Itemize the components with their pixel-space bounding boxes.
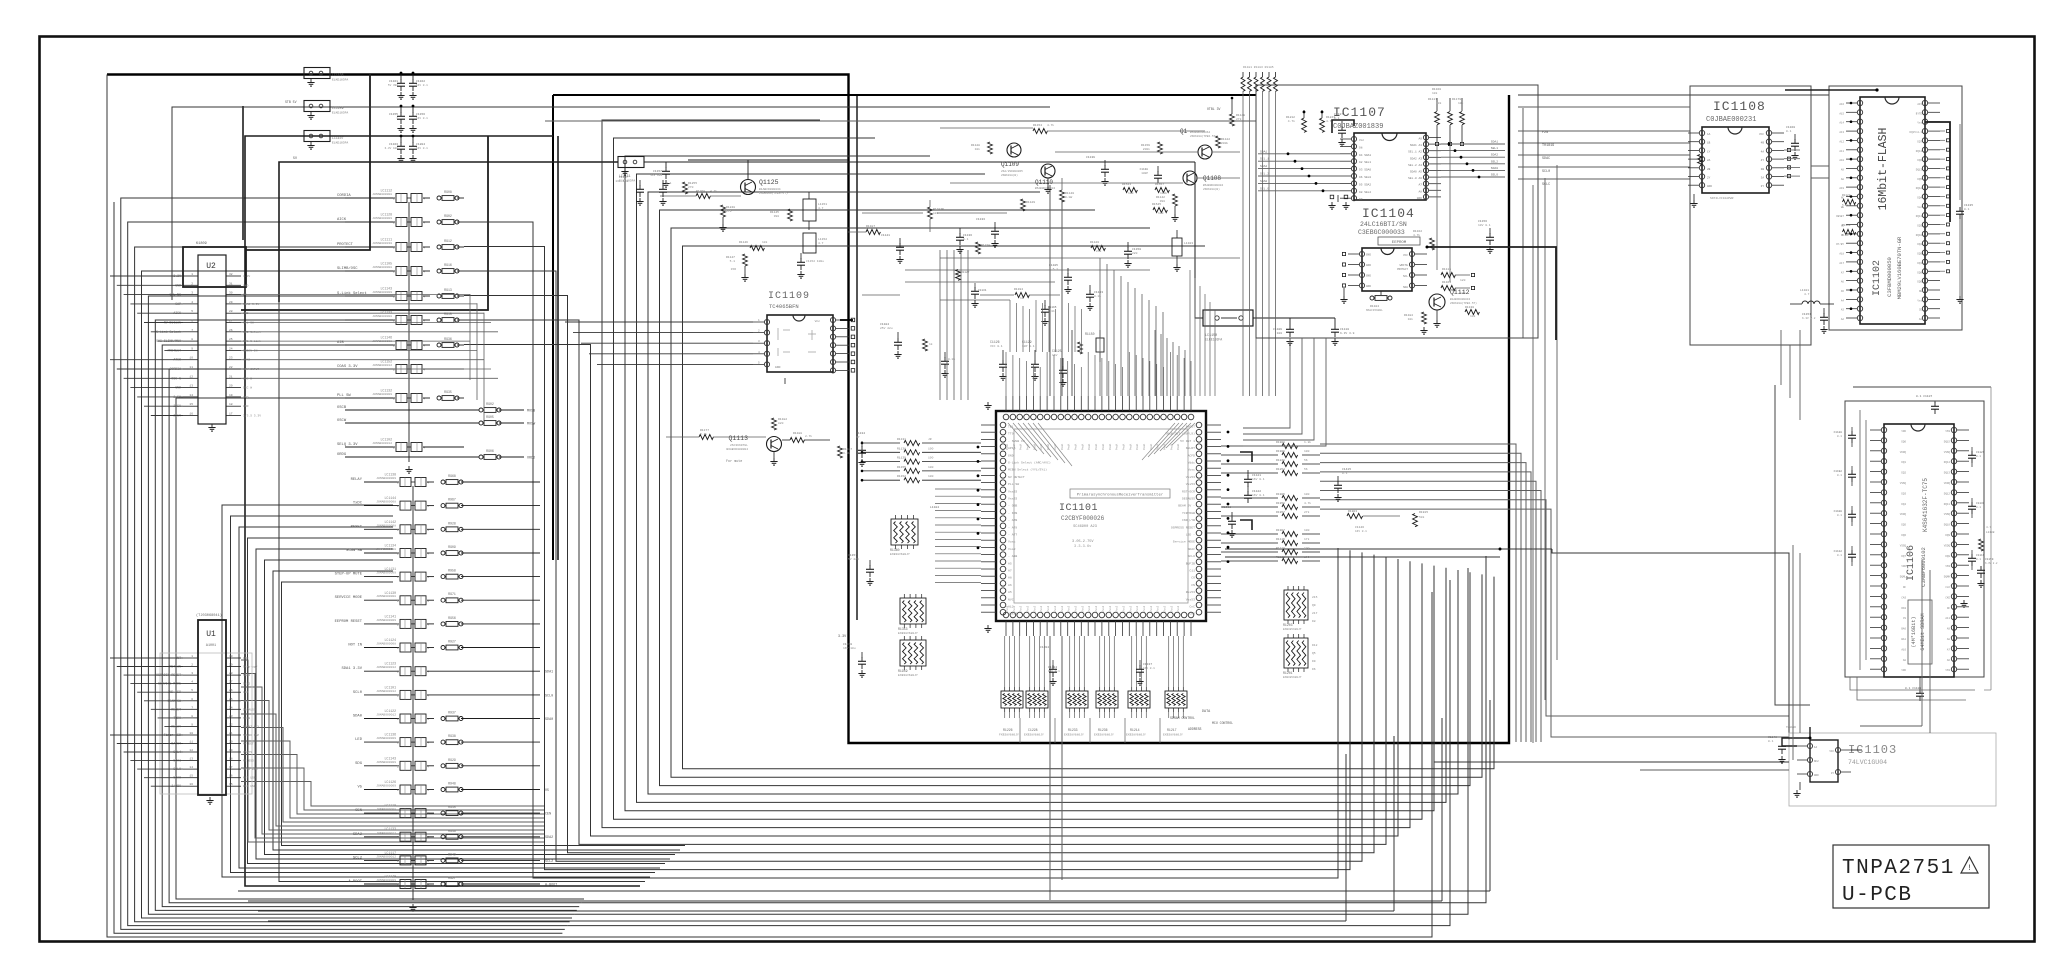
svg-text:16V 100: 16V 100 <box>650 174 662 177</box>
wire U1 net 4 <box>241 701 545 831</box>
svg-text:OSDYS: OSDYS <box>243 751 252 754</box>
svg-text:SOUND OSP: SOUND OSP <box>243 734 259 737</box>
U1 pin 3 <box>183 674 198 676</box>
svg-text:A2: A2 <box>1841 318 1845 321</box>
svg-text:27: 27 <box>229 681 233 684</box>
svg-text:5.1: 5.1 <box>730 260 736 263</box>
ground IC1103 <box>1799 782 1801 790</box>
U2 pin 7 <box>183 331 198 333</box>
resistor R1138 <box>862 451 900 453</box>
svg-text:A5: A5 <box>1841 290 1845 293</box>
svg-text:V5: V5 <box>545 789 549 793</box>
svg-text:VDDQ: VDDQ <box>1900 451 1907 454</box>
svg-text:PLL SW: PLL SW <box>1008 482 1019 486</box>
svg-text:OTBL 3V: OTBL 3V <box>1207 107 1220 111</box>
svg-text:GND: GND <box>1366 254 1371 257</box>
svg-text:Vss53: Vss53 <box>1186 597 1195 601</box>
svg-text:95 SDA2: 95 SDA2 <box>1359 183 1371 186</box>
svg-text:SDA1: SDA1 <box>1260 150 1267 153</box>
svg-text:SCL0: SCL0 <box>1188 554 1196 558</box>
jumper R913 <box>437 294 441 298</box>
svg-text:Vss3: Vss3 <box>1143 605 1146 612</box>
wire chain bus vertical 3 <box>1071 330 1073 396</box>
svg-text:R1203: R1203 <box>1283 623 1293 627</box>
svg-text:OSPRESS RESET: OSPRESS RESET <box>1171 525 1195 529</box>
svg-text:SLIMB/OSC: SLIMB/OSC <box>337 266 358 271</box>
svg-text:R1131: R1131 <box>897 438 906 441</box>
svg-text:DQ5: DQ5 <box>1901 524 1906 527</box>
capacitor C1137 <box>1139 660 1141 666</box>
svg-text:17: 17 <box>229 413 233 416</box>
svg-text:22: 22 <box>229 723 233 726</box>
svg-text:STEP-UP MUTE: STEP-UP MUTE <box>335 573 363 577</box>
filter LC1124 <box>364 647 399 649</box>
svg-text:5.1k: 5.1k <box>1842 203 1849 207</box>
resistor R1147 <box>743 254 748 266</box>
svg-text:R1854: R1854 <box>1276 468 1285 471</box>
op-amp U0 area: IC1101 MCU <box>996 411 1206 621</box>
svg-text:2SD601A(TPE6.5T): 2SD601A(TPE6.5T) <box>1190 134 1217 138</box>
capacitor C1138 <box>1157 166 1159 172</box>
svg-text:DQ15/A-1: DQ15/A-1 <box>1910 130 1923 134</box>
svg-text:IC1104: IC1104 <box>1362 206 1415 221</box>
svg-text:0.1: 0.1 <box>1976 455 1981 458</box>
ground IC1104 <box>1343 288 1345 296</box>
svg-text:R1115: R1115 <box>1276 538 1285 541</box>
svg-text:PedA: PedA <box>1128 443 1132 450</box>
svg-text:4A: 4A <box>1761 150 1765 153</box>
IC1103 body <box>1810 740 1838 782</box>
svg-text:10k: 10k <box>975 147 981 151</box>
svg-text:P2G: P2G <box>1542 131 1548 135</box>
U1 pin 5 <box>183 691 198 693</box>
svg-text:21: 21 <box>229 375 233 378</box>
svg-text:SCL2: SCL2 <box>243 683 250 686</box>
resistor R1905 <box>1221 497 1278 499</box>
wire bold U2 feed 3 <box>242 106 244 240</box>
svg-text:RELAY: RELAY <box>351 478 363 482</box>
wire bus loop B6 <box>248 538 666 864</box>
svg-text:EXB38V680JY: EXB38V680JY <box>1126 734 1146 737</box>
svg-text:U1: U1 <box>206 630 216 639</box>
svg-text:Service MODE: Service MODE <box>1173 540 1195 544</box>
svg-text:0.1: 0.1 <box>1837 435 1842 438</box>
U2 pin 10 <box>183 359 198 361</box>
svg-text:15: 15 <box>229 783 233 786</box>
capacitor C1133 <box>994 222 996 228</box>
svg-text:96 SEL0: 96 SEL0 <box>1359 176 1371 179</box>
svg-text:PedA: PedA <box>1026 443 1030 450</box>
wire bus loop B4 <box>231 516 656 873</box>
svg-text:C1119: C1119 <box>1976 554 1985 557</box>
wire U1 net 5 <box>241 714 545 826</box>
svg-text:SDA0 3.3V: SDA0 3.3V <box>243 303 259 306</box>
filter LC1134 <box>364 552 399 554</box>
svg-text:R928: R928 <box>448 521 456 525</box>
svg-text:Q1: Q1 <box>1180 128 1188 135</box>
svg-text:5.1k: 5.1k <box>1842 233 1849 237</box>
wire bus loop B1 <box>245 136 640 886</box>
svg-text:SEL2: SEL2 <box>1491 160 1498 163</box>
connector U2 outer frame <box>183 247 246 287</box>
svg-text:270: 270 <box>726 210 732 213</box>
svg-text:4: 4 <box>191 681 193 684</box>
svg-text:J0MAB000008: J0MAB000008 <box>372 315 392 318</box>
svg-text:MCU CONTROL: MCU CONTROL <box>1212 721 1233 725</box>
wire bus stair S10 <box>637 174 1447 802</box>
svg-text:R912: R912 <box>444 239 452 243</box>
svg-text:LC1142: LC1142 <box>385 520 397 524</box>
svg-text:Vss3: Vss3 <box>1109 605 1112 612</box>
svg-text:B1ABCD000034: B1ABCD000034 <box>1450 298 1470 301</box>
svg-text:DQ1: DQ1 <box>1901 461 1906 464</box>
svg-text:ADDRESS: ADDRESS <box>1188 727 1201 731</box>
resistor R1854 <box>1221 472 1278 474</box>
svg-text:Q1112: Q1112 <box>1450 289 1470 296</box>
svg-text:R938: R938 <box>448 734 456 738</box>
svg-text:A14: A14 <box>1839 122 1844 125</box>
svg-text:OSCB: OSCB <box>337 406 347 410</box>
svg-text:R1115: R1115 <box>1442 268 1451 271</box>
svg-text:4Y: 4Y <box>1831 772 1835 775</box>
svg-text:T01819: T01819 <box>1542 144 1554 148</box>
IC1109 internal gates <box>777 328 779 340</box>
svg-text:2SD601A(TPE6.5T): 2SD601A(TPE6.5T) <box>759 191 788 195</box>
U2 pin 3 <box>183 294 198 296</box>
svg-text:PedA: PedA <box>1094 443 1098 450</box>
wire IC1107 right nets <box>1441 143 1505 145</box>
svg-text:GND: GND <box>243 657 249 660</box>
svg-text:2: 2 <box>397 836 399 839</box>
svg-text:TT0: TT0 <box>1008 432 1014 436</box>
svg-text:3A: 3A <box>1761 177 1765 180</box>
svg-text:11: 11 <box>189 741 193 744</box>
wire chip top verticals <box>1099 258 1101 396</box>
svg-text:C1150: C1150 <box>1132 248 1141 251</box>
svg-text:R913: R913 <box>444 288 452 292</box>
svg-text:C1228: C1228 <box>1028 728 1038 732</box>
svg-text:16: 16 <box>189 783 193 786</box>
svg-text:RESET: RESET <box>1836 215 1844 218</box>
svg-text:MA8C15900L: MA8C15900L <box>1366 309 1383 312</box>
svg-text:R1129: R1129 <box>1026 201 1035 204</box>
svg-text:24LC16BTI/SN: 24LC16BTI/SN <box>1360 221 1407 228</box>
svg-text:R971: R971 <box>448 592 456 596</box>
IC1104 eeprom tag <box>1378 237 1420 245</box>
resistor R1188 <box>782 439 790 441</box>
wire chip top comb 2 <box>1009 300 1011 352</box>
wire bus loop A11 <box>176 398 584 899</box>
wire U1 net 9 <box>241 768 545 810</box>
svg-text:30: 30 <box>229 655 233 658</box>
svg-text:10k: 10k <box>1432 91 1438 95</box>
svg-text:GND: GND <box>1366 264 1371 267</box>
svg-text:1: 1 <box>191 655 193 658</box>
resistor R1131 <box>862 442 900 444</box>
svg-text:100: 100 <box>1304 529 1310 532</box>
wire U1 net 8 <box>241 755 545 815</box>
svg-text:12: 12 <box>189 375 193 378</box>
jumper R902 <box>437 220 441 224</box>
svg-text:CO: CO <box>1191 576 1195 580</box>
svg-text:Vosc: Vosc <box>1008 540 1016 544</box>
svg-text:14: 14 <box>189 394 193 397</box>
svg-text:J0MAB000008: J0MAB000008 <box>376 548 396 551</box>
svg-text:Vss3: Vss3 <box>1033 605 1036 612</box>
svg-text:GND: GND <box>775 366 781 369</box>
block box IC1103 <box>1789 733 1996 806</box>
svg-text:TB1B_OUT (90/L9): TB1B_OUT (90/L9) <box>1165 432 1195 436</box>
U1 pin 16 <box>183 785 198 787</box>
U2 pin 14 <box>183 396 198 398</box>
svg-text:LC1118: LC1118 <box>385 804 397 808</box>
ground Q1113 <box>773 451 775 458</box>
resistor R1196 <box>923 339 928 351</box>
svg-text:R1122: R1122 <box>1842 194 1851 197</box>
svg-text:200k: 200k <box>1221 141 1228 145</box>
wire IC1107 vcc bold <box>1332 120 1354 133</box>
IC1101 bottom pins <box>1003 612 1009 618</box>
svg-text:50k: 50k <box>1419 515 1425 519</box>
svg-text:BA0: BA0 <box>1901 628 1906 631</box>
U1 pin 14 <box>183 768 198 770</box>
svg-text:(TJ03068041): (TJ03068041) <box>196 613 222 618</box>
svg-text:GND: GND <box>1366 275 1371 278</box>
svg-text:J0MAB000009: J0MAB000009 <box>372 291 392 294</box>
U1 pin 7 <box>183 708 198 710</box>
svg-text:R949: R949 <box>448 852 456 856</box>
filter LC1123 <box>364 670 399 672</box>
jumper R915 <box>437 318 441 322</box>
svg-text:Q5: Q5 <box>1312 652 1316 655</box>
svg-text:LC1132: LC1132 <box>381 389 393 393</box>
capacitor C1195 <box>944 352 946 358</box>
svg-text:0-GW: 0-GW <box>1065 196 1072 199</box>
resistor R1127 speck <box>956 270 961 281</box>
svg-text:2SC3669TGL: 2SC3669TGL <box>730 444 748 447</box>
svg-text:LED: LED <box>243 691 249 694</box>
svg-text:VSS: VSS <box>1945 430 1950 433</box>
svg-text:217: 217 <box>1312 612 1318 615</box>
svg-text:R1155: R1155 <box>897 466 906 469</box>
svg-text:2: 2 <box>397 600 399 603</box>
resistor array R1233 <box>1066 691 1088 708</box>
svg-text:A11: A11 <box>1945 617 1950 620</box>
svg-text:16: 16 <box>229 775 233 778</box>
filter LC1132 <box>345 397 395 399</box>
svg-text:NC2: NC2 <box>1814 760 1819 763</box>
svg-text:AIB: AIB <box>337 341 345 345</box>
filter LC1142 <box>364 528 399 530</box>
svg-text:A5: A5 <box>1008 561 1012 565</box>
svg-text:R906: R906 <box>486 449 494 453</box>
ground U1 <box>209 797 211 801</box>
transistor Q1125 <box>741 180 756 195</box>
ground U2 <box>211 424 213 428</box>
svg-text:Vss3: Vss3 <box>1116 605 1119 612</box>
svg-text:7: 7 <box>191 329 193 332</box>
capacitor C1155 <box>400 106 402 113</box>
svg-text:R1905: R1905 <box>1276 493 1285 496</box>
svg-text:SEL.1 A2: SEL.1 A2 <box>1408 151 1422 154</box>
svg-text:R946: R946 <box>448 829 456 833</box>
svg-text:Vss3: Vss3 <box>1123 605 1126 612</box>
resistor R1136 <box>1015 292 1029 297</box>
resistor R1154 <box>1033 128 1047 133</box>
svg-text:D8: D8 <box>1312 620 1316 623</box>
svg-text:Vss3: Vss3 <box>1150 605 1153 612</box>
svg-text:C1204: C1204 <box>416 143 425 146</box>
resistor R1129 <box>1021 199 1026 211</box>
svg-text:DQMH: DQMH <box>1944 576 1951 579</box>
svg-text:C1133: C1133 <box>976 218 985 221</box>
svg-text:PedA: PedA <box>1074 443 1078 450</box>
svg-text:- A1B: - A1B <box>1008 554 1017 558</box>
wire Q cluster rails <box>940 127 1033 129</box>
capacitor C1161 <box>400 73 402 80</box>
svg-text:L1103: L1103 <box>1184 242 1193 245</box>
svg-text:Vss33: Vss33 <box>1008 497 1017 501</box>
svg-text:- ATB: - ATB <box>1008 518 1017 522</box>
svg-text:VCC 0.1: VCC 0.1 <box>990 345 1003 348</box>
resistor R1957 <box>1221 515 1278 517</box>
resistor array R1360 <box>891 519 918 545</box>
svg-text:SNBCN IN: SNBCN IN <box>243 349 258 352</box>
svg-text:R1255: R1255 <box>688 182 697 185</box>
svg-text:R1958: R1958 <box>1276 502 1285 505</box>
wire MCU right net 5 <box>1320 481 1536 742</box>
svg-text:R935: R935 <box>444 390 452 394</box>
capacitor C1204 <box>412 136 414 143</box>
resistor R1146 <box>750 245 764 250</box>
svg-text:A6: A6 <box>1841 281 1845 284</box>
svg-text:A3: A3 <box>1841 309 1845 312</box>
svg-text:LC1134: LC1134 <box>385 544 397 548</box>
svg-text:DQ8: DQ8 <box>1945 555 1950 558</box>
svg-text:10k: 10k <box>762 240 768 244</box>
svg-text:DQ7: DQ7 <box>1917 140 1922 143</box>
svg-text:2: 2 <box>397 813 399 816</box>
svg-text:2: 2 <box>191 664 193 667</box>
resistor array R1201 <box>1284 638 1308 668</box>
wire bus stair S8 <box>614 138 1423 819</box>
svg-text:A8: A8 <box>1947 638 1951 641</box>
svg-text:4.7k: 4.7k <box>1304 501 1311 505</box>
svg-text:1.8k: 1.8k <box>1304 440 1311 444</box>
transistor Q1113 <box>767 437 782 452</box>
svg-text:C1128: C1128 <box>1834 431 1843 434</box>
svg-text:ORDG: ORDG <box>337 453 347 457</box>
svg-text:DQ9: DQ9 <box>1917 253 1922 256</box>
svg-text:270: 270 <box>688 186 694 189</box>
svg-text:A11: A11 <box>1839 150 1844 153</box>
svg-text:4.7: 4.7 <box>1986 526 1991 529</box>
svg-text:R1182: R1182 <box>778 418 787 421</box>
U1 pin 2 <box>183 666 198 668</box>
svg-text:SDA2: SDA2 <box>243 674 250 677</box>
svg-text:6.3V 2.2: 6.3V 2.2 <box>1985 562 1998 565</box>
svg-text:B1ABCD000034: B1ABCD000034 <box>759 188 781 191</box>
svg-text:4.7k: 4.7k <box>710 189 717 193</box>
svg-text:LC1144: LC1144 <box>385 496 397 500</box>
svg-text:2: 2 <box>397 789 399 792</box>
filter LC1136 <box>364 741 399 743</box>
svg-text:A9: A9 <box>1947 628 1951 631</box>
svg-text:LC1117: LC1117 <box>385 851 397 855</box>
svg-text:16V: 16V <box>1052 354 1058 357</box>
svg-text:C1110: C1110 <box>1340 328 1349 331</box>
svg-text:CnD: CnD <box>1189 612 1195 616</box>
svg-text:Res53: Res53 <box>1186 590 1195 594</box>
filter LC1140 <box>364 883 399 885</box>
svg-text:SEL.1: SEL.1 <box>1260 158 1269 161</box>
svg-text:94 SDA1: 94 SDA1 <box>1359 154 1371 157</box>
svg-text:C1112: C1112 <box>1834 550 1843 553</box>
svg-text:SCL2: SCL2 <box>545 860 553 864</box>
svg-text:RY/BY: RY/BY <box>1836 242 1844 246</box>
U1 pin 11 <box>183 743 198 745</box>
svg-text:R1148: R1148 <box>1236 114 1245 117</box>
svg-text:PedA: PedA <box>1087 443 1091 450</box>
svg-text:- OSB: - OSB <box>1008 504 1017 508</box>
svg-text:C1121: C1121 <box>1252 474 1261 477</box>
jumper R958 <box>441 575 445 579</box>
svg-text:R1128: R1128 <box>971 144 980 147</box>
svg-text:Vss3: Vss3 <box>1170 605 1173 612</box>
svg-text:R905: R905 <box>486 415 494 419</box>
svg-text:SDA0 A5: SDA0 A5 <box>1410 171 1422 174</box>
svg-text:16Mbit-FLASH: 16Mbit-FLASH <box>1877 128 1890 211</box>
filter LC1118 <box>364 812 399 814</box>
svg-text:C1117: C1117 <box>1334 113 1343 116</box>
svg-text:C1141: C1141 <box>881 234 890 237</box>
svg-text:VCC: VCC <box>1403 254 1408 257</box>
filter LC1130 <box>364 599 399 601</box>
wire bus loop B9 <box>273 571 680 850</box>
svg-text:Vss3: Vss3 <box>1061 605 1064 612</box>
svg-text:LC1131: LC1131 <box>385 567 397 571</box>
ground chain bottom <box>412 904 414 908</box>
svg-text:J0MAB000008: J0MAB000008 <box>376 595 396 598</box>
svg-text:Q1125: Q1125 <box>759 179 779 186</box>
wire bus loop A8 <box>155 320 577 910</box>
svg-text:GND: GND <box>243 405 249 408</box>
svg-text:29: 29 <box>229 301 233 304</box>
wire 5V row continue <box>666 161 1195 163</box>
resistor array R1217 <box>1165 691 1187 708</box>
resistor R1128 <box>988 142 993 154</box>
filter LC1131 <box>364 576 399 578</box>
svg-text:2SB601A(B): 2SB601A(B) <box>1001 173 1018 177</box>
resistor R1116 <box>1153 207 1167 212</box>
svg-text:0.1: 0.1 <box>666 182 672 185</box>
svg-text:C1104: C1104 <box>880 323 889 326</box>
svg-text:GND: GND <box>1814 774 1819 777</box>
resistor array R1353 <box>900 598 926 624</box>
resistor R1109 <box>1698 155 1703 166</box>
jumper R948 <box>441 788 445 792</box>
wire SDRAM bottom loops <box>1850 677 1975 690</box>
svg-text:A0: A0 <box>1903 659 1907 662</box>
svg-text:DQ3: DQ3 <box>1917 225 1922 228</box>
svg-text:20: 20 <box>229 741 233 744</box>
svg-text:100: 100 <box>1304 556 1310 559</box>
svg-text:SDA0: SDA0 <box>353 715 363 719</box>
svg-text:29: 29 <box>229 664 233 667</box>
svg-text:C1139: C1139 <box>1086 156 1095 159</box>
wire bottom rail extra <box>238 890 1490 892</box>
svg-text:SCL0: SCL0 <box>353 691 363 695</box>
